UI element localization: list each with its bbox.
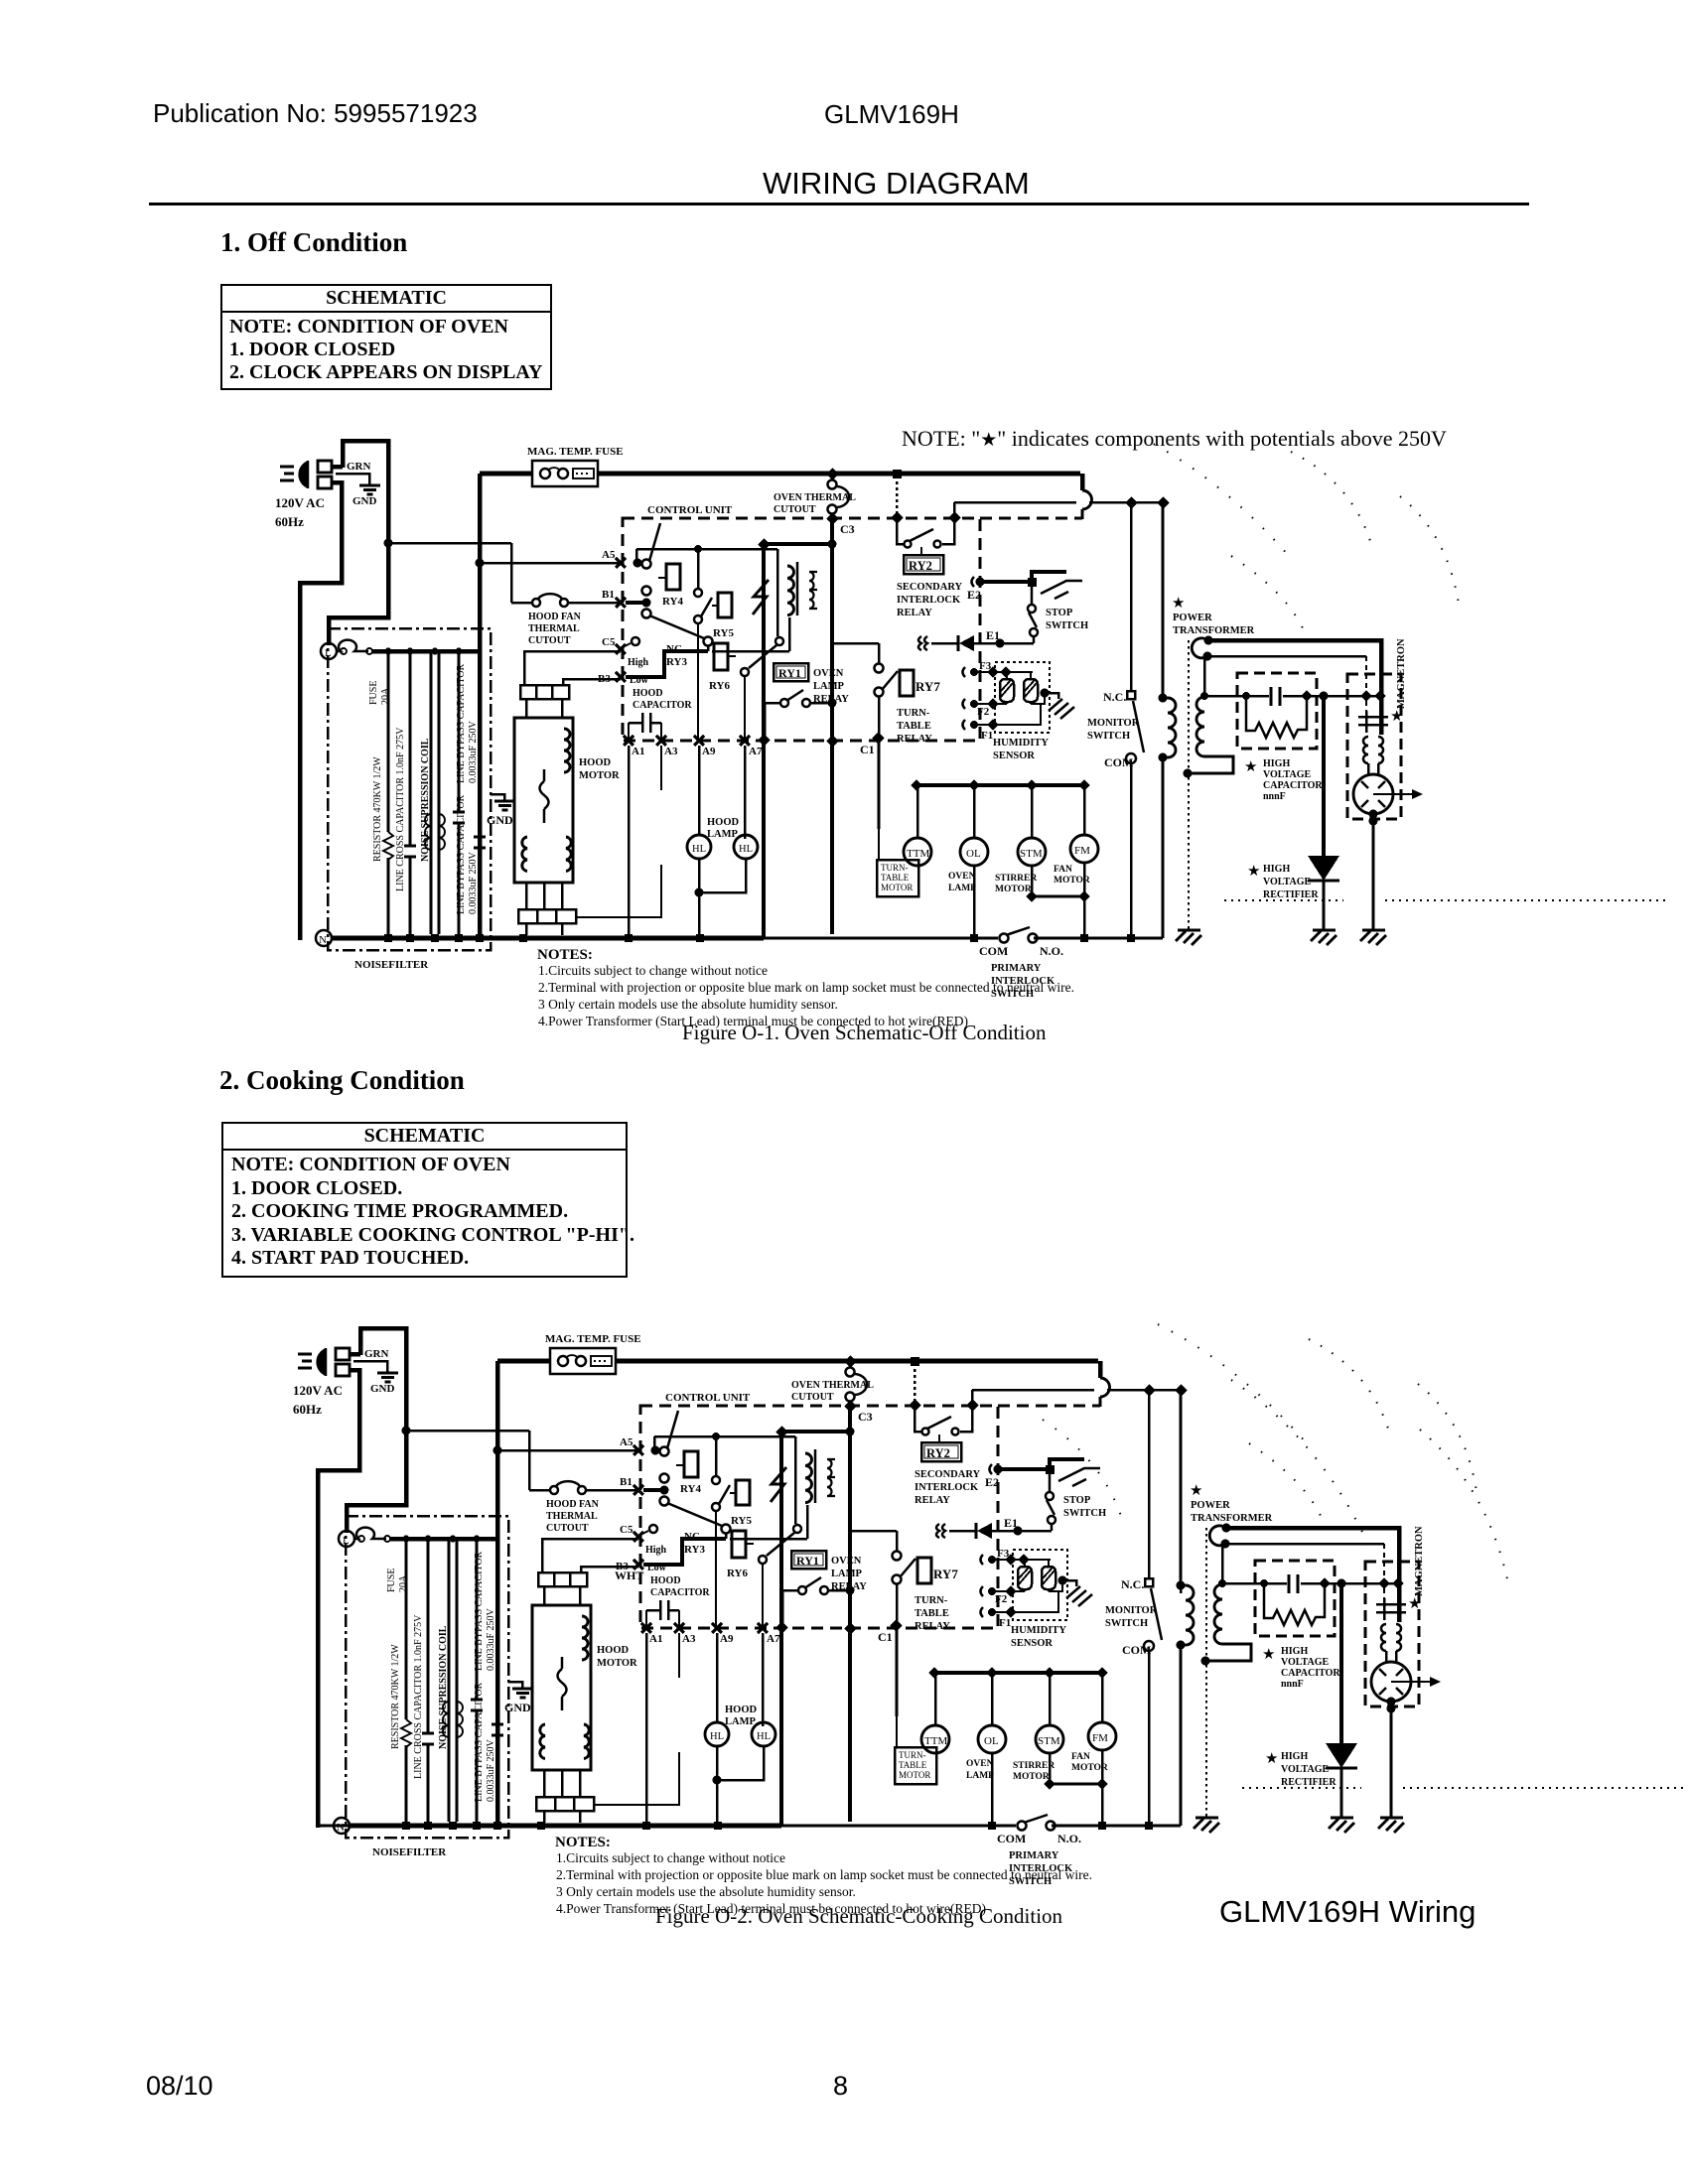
photocopy speckle trail fig2 a: [1231, 1380, 1370, 1549]
figure 1 caption: [682, 1021, 1046, 1045]
fig2 energized path overlay: magnetron HV: [1226, 1528, 1399, 1818]
schematic note box 2: [221, 1122, 628, 1278]
footer page number: [833, 2071, 848, 2102]
title rule: [149, 203, 1529, 205]
header: publication number: [153, 98, 478, 129]
schematic figure O-1 (off condition): [275, 437, 1668, 1028]
figure 2 caption: [655, 1904, 1062, 1929]
page title: [763, 166, 1030, 202]
fig2 energized path overlay: motor bus: [934, 1672, 1102, 1675]
svg-text:WHT: WHT: [615, 1569, 643, 1582]
wiring label bottom right: [1219, 1894, 1476, 1930]
header: model: [824, 99, 959, 130]
schematic figure O-2 (cooking condition): [293, 1324, 1686, 1916]
note about star: [902, 426, 1447, 452]
fig2 energized path overlay: transformer columns: [1149, 1390, 1181, 1826]
fig2 energized path overlay: hot bus: [497, 1361, 1098, 1824]
footer date: [146, 2071, 213, 2102]
photocopy speckle trail fig2 b: [1420, 1430, 1509, 1588]
section 1 heading: [220, 227, 407, 258]
fig2 energized path overlay: bottom bus right: [781, 1825, 1181, 1828]
photocopy speckle trail fig2 c: [1043, 1420, 1122, 1519]
section 2 heading: [219, 1065, 465, 1096]
schematic note box 1: [220, 284, 552, 390]
fig2 energized path overlay: left boundary: [318, 1469, 764, 1826]
